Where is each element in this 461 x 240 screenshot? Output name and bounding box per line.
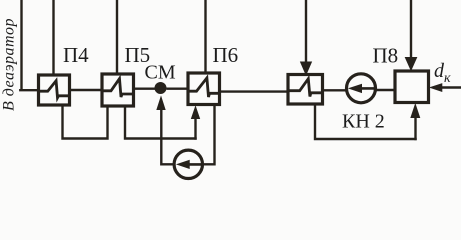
svg-text:КН 2: КН 2 bbox=[342, 111, 385, 133]
wire steam to П6 bbox=[204, 0, 206, 73]
label П8 bbox=[373, 44, 399, 68]
wire П6 to heater П7 bbox=[220, 90, 289, 92]
heater П5 bbox=[102, 74, 134, 106]
label СМ bbox=[145, 62, 176, 84]
wire heater П7 to pump КН2 bbox=[323, 89, 348, 91]
svg-text:В деаэратор: В деаэратор bbox=[1, 18, 18, 111]
label П6 bbox=[213, 43, 239, 67]
svg-text:П6: П6 bbox=[213, 43, 239, 67]
wire steam to П4 bbox=[52, 0, 54, 74]
wire СМ to П6 bbox=[168, 87, 189, 89]
wire riser pump to СМ with arrow bbox=[157, 97, 175, 164]
wire loop up into П8 bottom with arrow bbox=[411, 105, 420, 140]
wire to deaerator (left vertical + elbow into П4) bbox=[20, 0, 38, 90]
svg-text:к: к bbox=[444, 71, 451, 86]
wire П6 drain to pump suction bbox=[202, 105, 215, 164]
wire П5 to СМ bbox=[134, 87, 157, 89]
wire heater П7 drain down to loop bbox=[315, 105, 416, 140]
pump КН2 (circle, left arrow) bbox=[347, 74, 376, 103]
label В деаэратор bbox=[1, 18, 18, 111]
label П5 bbox=[125, 43, 151, 67]
label П4 bbox=[63, 43, 89, 67]
wire condensate d_k into П8 with arrow bbox=[431, 84, 461, 92]
heater П6 bbox=[188, 73, 220, 105]
wire П5 drain across to П6 bbox=[125, 107, 196, 139]
svg-text:П8: П8 bbox=[373, 44, 399, 68]
wire П4 drain down-right-up into П5 bbox=[63, 105, 108, 139]
wire steam to П5 bbox=[116, 0, 118, 73]
wire П4 to П5 bbox=[70, 89, 101, 91]
heater П8 bbox=[395, 71, 429, 103]
pump drain (circle, left arrow) bbox=[174, 150, 202, 178]
wire КН2 to П8 bbox=[375, 89, 395, 91]
wire steam to П8 with arrow bbox=[405, 0, 416, 70]
wire steam to heater П7 with arrow bbox=[301, 0, 312, 75]
heater П7 (unlabeled) bbox=[288, 75, 323, 105]
label КН 2 bbox=[342, 111, 385, 133]
node СМ mixer bbox=[155, 83, 166, 94]
wire up into П6 bottom with arrow bbox=[192, 107, 200, 139]
label d_k bbox=[434, 60, 451, 86]
heater П4 bbox=[39, 75, 70, 105]
svg-text:П4: П4 bbox=[63, 43, 89, 67]
svg-text:СМ: СМ bbox=[145, 62, 176, 84]
